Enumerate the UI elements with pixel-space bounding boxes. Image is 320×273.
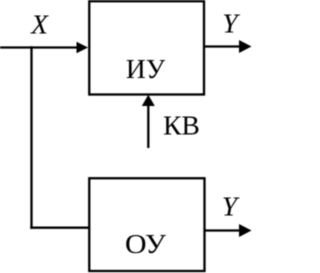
svg-text:ИУ: ИУ [126, 53, 166, 84]
svg-text:КВ: КВ [163, 110, 200, 141]
svg-text:ОУ: ОУ [125, 228, 167, 259]
svg-text:Y: Y [222, 8, 240, 39]
svg-text:X: X [30, 9, 49, 40]
svg-text:Y: Y [222, 191, 240, 222]
